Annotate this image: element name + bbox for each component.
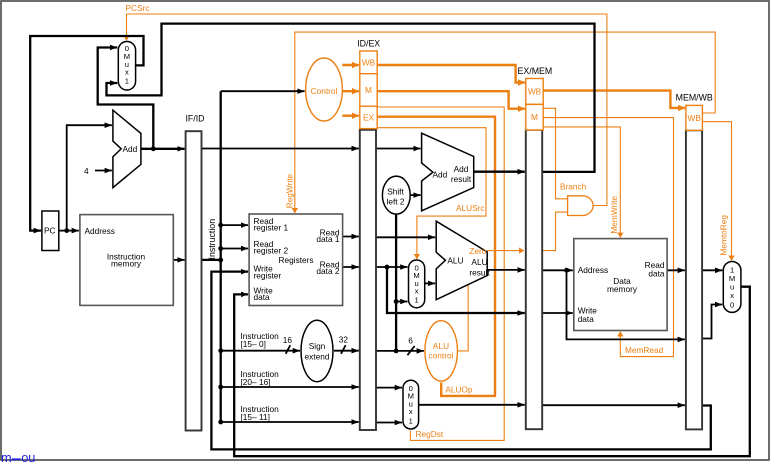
ID/EX M box <box>360 74 377 107</box>
wire Zero from EX/MEM to AND gate <box>542 212 567 251</box>
svg-text:PC: PC <box>44 226 56 236</box>
svg-text:ALU: ALU <box>433 341 449 351</box>
svg-text:left 2: left 2 <box>387 197 405 207</box>
ID/EX EX box <box>360 106 377 128</box>
svg-text:1: 1 <box>125 77 129 86</box>
svg-text:WB: WB <box>362 57 376 67</box>
wire Add output to IF/ID <box>141 148 185 150</box>
svg-text:Branch: Branch <box>560 182 587 192</box>
wire RegWrite from MEM/WB WB to Registers <box>295 32 715 213</box>
node PC junction <box>64 228 69 233</box>
wire Read data 2 to ID/EX <box>343 266 359 268</box>
wire Read data 2 branch down to write data path <box>387 267 525 313</box>
wire ALU mux output to ALU <box>425 282 436 284</box>
node ALU result junction <box>564 268 569 273</box>
wire instruction 20-16 to ID/EX <box>221 386 359 388</box>
link text fragment <box>1 450 35 462</box>
svg-text:ALU: ALU <box>471 257 487 267</box>
registers block <box>249 214 343 306</box>
wire Add output feedback to PC-mux input 0 <box>98 48 154 149</box>
wire ALU result bypass down to MEM/WB <box>567 270 685 339</box>
wire PC-mux output to PC <box>30 36 143 231</box>
svg-text:Control: Control <box>311 86 338 96</box>
svg-text:Add: Add <box>123 144 138 154</box>
svg-text:data 1: data 1 <box>316 234 339 244</box>
svg-text:MemRead: MemRead <box>625 345 664 355</box>
MEM/WB WB box <box>686 105 703 130</box>
svg-text:M: M <box>729 274 735 283</box>
svg-text:ou: ou <box>21 450 35 462</box>
svg-text:16: 16 <box>283 335 293 345</box>
ID/EX pipeline register <box>357 39 380 430</box>
wire instruction 20-16 to RegDst mux input 0 <box>376 387 402 389</box>
wire RegWrite write register from MEM/WB around bottom <box>211 272 710 450</box>
wire PC+4 from IF/ID to ID/EX <box>202 148 359 150</box>
svg-text:x: x <box>730 291 734 300</box>
node read data 2 junction <box>385 265 390 270</box>
control unit ellipse <box>306 58 343 121</box>
svg-text:Address: Address <box>578 265 608 275</box>
svg-text:EX/MEM: EX/MEM <box>518 66 553 76</box>
svg-text:MEM/WB: MEM/WB <box>676 92 713 102</box>
mux M3 RegDst <box>403 380 419 429</box>
svg-text:result: result <box>469 268 490 278</box>
MEM/WB pipeline register <box>676 92 713 429</box>
wire immediate to ALU mux input 1 <box>396 301 407 303</box>
svg-text:[15– 0]: [15– 0] <box>241 339 266 349</box>
svg-text:4: 4 <box>84 166 89 176</box>
wire ALU result MEM/WB to final mux input 0 <box>702 305 722 339</box>
svg-text:x: x <box>409 407 413 416</box>
node instruction junction read register 1 <box>218 223 223 228</box>
adder Add result <box>422 133 474 211</box>
wire instruction 15-11 to RegDst mux input 1 <box>376 422 402 424</box>
slash 6-bit <box>407 346 414 355</box>
EX/MEM WB box <box>526 79 543 105</box>
svg-text:Registers: Registers <box>279 255 314 265</box>
data memory <box>574 239 667 331</box>
svg-text:1: 1 <box>409 416 413 425</box>
wire instruction 15-0 to Sign extend <box>221 350 300 352</box>
wire instruction bus vertical <box>220 91 222 422</box>
wire WB bundle EX/MEM to MEM/WB <box>543 91 685 108</box>
wire Read data MEM/WB to final mux input 1 <box>702 269 722 271</box>
svg-text:[15– 11]: [15– 11] <box>241 412 270 422</box>
svg-text:Add: Add <box>454 164 469 174</box>
svg-text:Zero: Zero <box>469 246 486 256</box>
wire instruction to Read register 1 <box>221 224 248 226</box>
PC register <box>42 211 59 251</box>
wire branch target EX/MEM to PC-mux input 1 <box>107 24 595 172</box>
svg-text:MemWrite: MemWrite <box>609 196 619 234</box>
wire instruction memory output to IF/ID <box>173 259 184 261</box>
wire constant 4 to Add <box>95 170 112 172</box>
wire ALU result EX/MEM to data memory Address <box>542 269 573 271</box>
wire Zero from ALU to EX/MEM <box>487 250 524 252</box>
node instruction junction sign extend <box>218 348 223 353</box>
wire instruction to Read register 2 <box>221 248 248 250</box>
svg-text:ID/EX: ID/EX <box>357 39 380 49</box>
svg-text:register: register <box>254 270 282 280</box>
ID/EX WB box <box>360 51 377 74</box>
svg-text:memory: memory <box>111 258 142 268</box>
svg-text:Address: Address <box>85 226 115 236</box>
svg-text:extend: extend <box>305 351 330 361</box>
shift left 2 ellipse <box>382 176 410 214</box>
ALU <box>436 221 490 300</box>
wire Control to ID/EX WB <box>342 64 359 66</box>
slash 32-bit <box>341 345 346 354</box>
node instruction junction read register 2 <box>218 246 223 251</box>
svg-text:EX: EX <box>363 112 375 122</box>
svg-text:x: x <box>415 287 419 296</box>
svg-text:PCSrc: PCSrc <box>126 3 150 13</box>
wire Sign extend output to ID/EX <box>334 350 359 352</box>
wire ALUSrc from EX bundle to ALU mux select <box>377 128 486 259</box>
svg-text:[20– 16]: [20– 16] <box>241 377 271 387</box>
wire instruction from IF/ID to instruction bus <box>202 259 221 261</box>
wire write data from final mux around bottom <box>234 287 750 457</box>
wire Control to ID/EX EX <box>342 114 359 116</box>
IF/ID pipeline register <box>185 113 204 430</box>
wire Branch from EX/MEM M to AND gate <box>543 108 567 199</box>
svg-text:Add: Add <box>433 169 448 179</box>
wire immediate from ID/EX to ALU control <box>376 350 424 352</box>
node instruction junction 15-11 <box>218 420 223 425</box>
svg-text:memory: memory <box>607 284 638 294</box>
svg-text:1: 1 <box>414 296 418 305</box>
svg-text:RegDst: RegDst <box>416 429 444 439</box>
svg-text:data: data <box>254 292 271 302</box>
svg-text:0: 0 <box>730 300 734 309</box>
svg-text:M: M <box>365 85 372 95</box>
svg-text:IF/ID: IF/ID <box>185 113 204 123</box>
mux M2 ALU source <box>409 260 425 308</box>
svg-text:ALUOp: ALUOp <box>445 385 473 395</box>
svg-text:Sign: Sign <box>309 341 326 351</box>
wire PC value up to Add input <box>67 125 112 230</box>
wire PC+4 from ID/EX to Add result <box>376 148 421 150</box>
sign extend ellipse <box>301 320 333 381</box>
wire RegDst mux output through EX/MEM <box>419 404 525 406</box>
svg-text:result: result <box>451 174 472 184</box>
wire Read data from data memory to MEM/WB <box>667 269 685 271</box>
wire Add result output to EX/MEM <box>474 171 525 173</box>
mux M4 MemtoReg <box>723 262 741 313</box>
node instruction junction 20-16 <box>218 385 223 390</box>
slash 16-bit <box>286 345 291 354</box>
svg-text:ALUSrc: ALUSrc <box>456 203 485 213</box>
svg-text:RegWrite: RegWrite <box>285 173 295 208</box>
wire EX bundle ALUOp to ALU control <box>377 117 495 396</box>
node instruction junction IF/ID feed <box>218 258 223 263</box>
wire WB bundle ID/EX to EX/MEM <box>377 65 525 83</box>
svg-text:6: 6 <box>408 335 413 345</box>
svg-text:32: 32 <box>339 335 349 345</box>
wire Read data 1 from ID/EX to ALU <box>376 236 435 238</box>
svg-text:data: data <box>578 314 595 324</box>
svg-text:1: 1 <box>730 265 734 274</box>
wire immediate up to Shift left 2 and ALU mux input 1 <box>395 199 397 351</box>
svg-text:WB: WB <box>528 87 542 97</box>
wire write data EX/MEM to data memory <box>542 312 573 314</box>
node immediate junction at mux <box>394 299 399 304</box>
svg-text:x: x <box>125 68 129 77</box>
wire PC to instruction memory Address <box>59 230 79 232</box>
adder Add (PC+4) <box>113 110 141 187</box>
wire write register number EX/MEM to MEM/WB <box>542 404 685 406</box>
svg-text:m: m <box>1 450 12 462</box>
svg-text:data 2: data 2 <box>316 266 339 276</box>
instruction memory <box>80 215 173 306</box>
wire RegDst from EX bundle to RegDst mux select <box>377 107 504 440</box>
wire Read data 1 to ID/EX <box>343 236 359 238</box>
node immediate junction at ALU control row <box>394 349 399 354</box>
wire MemWrite from EX/MEM M to data memory <box>543 127 620 238</box>
wire Read data 2 from ID/EX to ALU mux input 0 <box>376 266 408 268</box>
svg-text:M: M <box>531 112 538 122</box>
wire ALU control output to ALU <box>458 285 469 351</box>
mux M1 PC source <box>118 42 135 91</box>
EX/MEM M box <box>526 104 543 130</box>
wire Control to ID/EX M <box>343 90 359 92</box>
node Add output junction <box>151 146 156 151</box>
ALU control ellipse <box>425 321 458 381</box>
wire PCSrc from AND gate to PC-mux select <box>127 14 607 206</box>
svg-text:data: data <box>648 268 665 278</box>
svg-text:MemtoReg: MemtoReg <box>718 215 728 256</box>
wire MemtoReg from MEM/WB WB to final mux select <box>702 122 731 261</box>
wire instruction to Control <box>221 90 305 92</box>
svg-text:Instruction: Instruction <box>207 219 217 260</box>
AND gate branch <box>568 196 594 216</box>
EX/MEM pipeline register <box>518 66 553 429</box>
wire ALU result to EX/MEM <box>487 269 525 271</box>
wire MemRead from EX/MEM M to data memory bottom <box>543 118 673 357</box>
svg-text:WB: WB <box>688 113 702 123</box>
wire Shift left 2 output to Add result <box>410 194 420 196</box>
svg-text:control: control <box>429 351 454 361</box>
svg-text:ALU: ALU <box>447 255 463 265</box>
wire instruction 15-11 to ID/EX <box>221 421 359 423</box>
wire M bundle ID/EX to EX/MEM <box>377 91 525 109</box>
svg-text:Shift: Shift <box>387 186 404 196</box>
svg-text:register 1: register 1 <box>254 223 289 233</box>
